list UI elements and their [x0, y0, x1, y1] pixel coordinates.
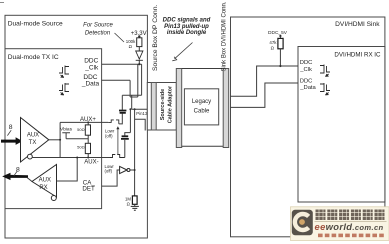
- wire TX output: [49, 139, 60, 141]
- wire ddc bus upper: [122, 94, 141, 96]
- bus slash: [7, 130, 11, 135]
- svg-text:DDC signals and: DDC signals and: [163, 17, 211, 23]
- svg-text:Source-side: Source-side: [160, 89, 166, 120]
- buffer bubble: [127, 169, 130, 172]
- svg-text:Cable Adaptor: Cable Adaptor: [167, 85, 173, 123]
- source-side cable adaptor box: [147, 83, 176, 131]
- switch control arrow: [117, 129, 119, 154]
- resistor R2 50ohm: [85, 125, 90, 135]
- diode D1: [136, 51, 143, 60]
- pin label DDC_Clk sink: [299, 60, 312, 73]
- capacitor C1: [119, 111, 126, 113]
- wire sink DDC_Data: [231, 83, 299, 107]
- svg-text:Dual-mode TX IC: Dual-mode TX IC: [8, 54, 59, 61]
- value label 1M ohm: [125, 196, 131, 206]
- wire clk drop: [137, 64, 139, 97]
- resistor R1 100k: [137, 38, 142, 47]
- svg-text:AUX: AUX: [39, 178, 51, 184]
- wire cap C2 top to pin13 line: [125, 133, 131, 136]
- svg-text:_Clk: _Clk: [84, 65, 99, 72]
- junction dot: [134, 169, 136, 171]
- cable shell top: [182, 68, 224, 70]
- svg-text:DDC: DDC: [300, 78, 313, 84]
- enable bubble TX: [28, 154, 33, 159]
- wire AUX vertical: [59, 122, 61, 157]
- bus arrow into AUX TX: [1, 137, 23, 145]
- wire cap C2 lead: [124, 140, 126, 158]
- svg-text:DVI/HDMI RX IC: DVI/HDMI RX IC: [334, 52, 381, 59]
- terminator chain vertical: [87, 122, 89, 157]
- op-amp AUX RX: [32, 165, 57, 198]
- svg-text:DVI/HDMI Sink: DVI/HDMI Sink: [335, 21, 380, 28]
- wire AUX-: [32, 157, 110, 159]
- wire cap C1 to switch: [119, 114, 123, 124]
- wire resistor to DDC_Clk: [279, 49, 281, 66]
- corner mark: [0, 2, 4, 4]
- DVI/HDMI sink box: [231, 17, 385, 237]
- wire DDC_Clk: [102, 63, 142, 65]
- wire AUX+: [60, 121, 108, 123]
- wire buffer out: [130, 169, 135, 171]
- svg-text:50Ω: 50Ω: [77, 145, 84, 150]
- value label 100k ohm: [126, 39, 136, 49]
- op-amp AUX TX: [21, 118, 49, 163]
- wire diode to DDC_Clk junction: [138, 60, 140, 64]
- wire resistor to diode: [138, 47, 140, 51]
- svg-text:_Clk: _Clk: [299, 67, 312, 73]
- svg-text:(off): (off): [105, 133, 113, 138]
- dual-mode source box: [5, 15, 147, 238]
- wire pin13 to DP connector: [132, 108, 151, 110]
- wire +3.3V to resistor: [138, 37, 140, 38]
- wire pin13 branch vertical: [131, 95, 133, 109]
- enable bubble RX: [51, 196, 56, 201]
- junction dot: [76, 157, 78, 159]
- DVI/HDMI RX IC box U3: [298, 47, 385, 203]
- transistor Q3 sink DDC_Clk: [320, 65, 330, 77]
- AUX TX label: [27, 133, 39, 146]
- dual-mode TX IC box U1: [5, 49, 102, 209]
- svg-text:Legacy: Legacy: [192, 99, 211, 105]
- svg-text:DDC_5V: DDC_5V: [268, 30, 288, 36]
- svg-text:Sink Box DVI/HDMI Conn.: Sink Box DVI/HDMI Conn.: [222, 1, 228, 71]
- wire to resistor R5: [279, 36, 281, 38]
- svg-text:47k: 47k: [269, 40, 277, 45]
- wire RX tip to arrow: [27, 178, 32, 182]
- resistor R3 50ohm: [85, 143, 90, 153]
- wire ddc bus lower: [130, 96, 138, 98]
- junction dot pin13: [134, 108, 136, 110]
- value label 47k ohm: [269, 40, 277, 50]
- wire data drop: [129, 80, 131, 97]
- wire resistor to ground: [134, 204, 136, 206]
- connector bar DP: [151, 83, 156, 131]
- callout leader line: [115, 33, 125, 42]
- junction dot: [138, 63, 140, 65]
- svg-text:DDC: DDC: [84, 57, 98, 64]
- eeworld watermark logo: [291, 207, 389, 241]
- callout DDC signals and Pin13 pulled-up inside Dongle: [163, 17, 211, 36]
- capacitor C2: [121, 136, 129, 139]
- callout leader arrow: [175, 43, 193, 59]
- svg-text:DET: DET: [82, 186, 95, 193]
- wire pin13 down to CAD: [134, 109, 136, 196]
- svg-text:Detection: Detection: [85, 31, 111, 37]
- wire DDC_Data: [102, 79, 131, 81]
- svg-text:Source Box DP Conn.: Source Box DP Conn.: [152, 5, 159, 71]
- svg-text:_Data: _Data: [299, 85, 316, 91]
- Vbias bar: [62, 133, 70, 139]
- rotated label Source-side Cable Adaptor: [160, 85, 174, 123]
- svg-text:Cable: Cable: [194, 108, 210, 114]
- wire pin13 to cap branch vertical: [129, 109, 131, 132]
- svg-text:DDC: DDC: [300, 60, 313, 66]
- switch SW2: [110, 155, 125, 158]
- wire stub to connector lower: [135, 119, 146, 130]
- bus arrow out of AUX RX: [2, 173, 28, 180]
- junction dot: [129, 108, 131, 110]
- junction dots: [87, 121, 89, 123]
- svg-text:_Data: _Data: [81, 80, 100, 87]
- transistor Q1 open-drain DDC_Clk: [59, 66, 69, 78]
- connector bar sink: [223, 69, 229, 148]
- pin label CA_DET: [82, 179, 95, 192]
- buffer U2: [120, 166, 127, 173]
- wire CA_DET: [102, 170, 120, 186]
- svg-text:Pin13 pulled-up: Pin13 pulled-up: [164, 24, 209, 30]
- svg-text:Dual-mode Source: Dual-mode Source: [8, 21, 63, 28]
- svg-text:eeworld.com.cn: eeworld.com.cn: [315, 221, 384, 232]
- cable shell bottom: [182, 145, 224, 147]
- svg-text:For Source: For Source: [83, 23, 113, 29]
- pin label DDC_Data: [81, 74, 100, 88]
- switch label Lowr (off): [105, 164, 115, 174]
- AUX RX label: [39, 178, 51, 191]
- svg-text:(off): (off): [105, 168, 113, 173]
- wire RX input: [57, 158, 78, 182]
- pin label DDC_Data sink: [299, 78, 316, 91]
- wire sink DDC_Clk: [231, 66, 299, 96]
- callout For Source Detection: [83, 23, 113, 37]
- switch SW1: [108, 120, 119, 124]
- svg-text:50Ω: 50Ω: [77, 127, 84, 132]
- svg-text:AUX-: AUX-: [84, 159, 98, 165]
- svg-text:Pin13: Pin13: [136, 111, 148, 116]
- pin label DDC_Clk: [84, 57, 99, 71]
- transistor Q2 open-drain DDC_Data: [59, 83, 69, 95]
- ground: [131, 206, 139, 210]
- switch label Lowr (off): [105, 129, 115, 139]
- junction dot: [279, 65, 281, 67]
- svg-text:Vbias: Vbias: [60, 127, 73, 133]
- svg-text:AUX: AUX: [27, 133, 39, 139]
- svg-text:inside Dongle: inside Dongle: [167, 30, 207, 36]
- resistor R4 1M: [132, 196, 137, 204]
- wire to coupling cap C1: [121, 95, 123, 110]
- wire pull-up drop: [141, 64, 143, 95]
- connector bar adaptor output: [176, 69, 181, 148]
- svg-text:RX: RX: [39, 185, 47, 191]
- bus slash: [14, 171, 18, 176]
- legacy cable label: [192, 99, 211, 114]
- resistor R5 47k: [278, 38, 283, 48]
- legacy cable box: [184, 89, 218, 125]
- svg-text:TX: TX: [29, 140, 37, 146]
- svg-text:8: 8: [9, 124, 13, 131]
- wire vbias to chain: [66, 138, 88, 140]
- transistor Q4 sink DDC_Data: [320, 83, 330, 95]
